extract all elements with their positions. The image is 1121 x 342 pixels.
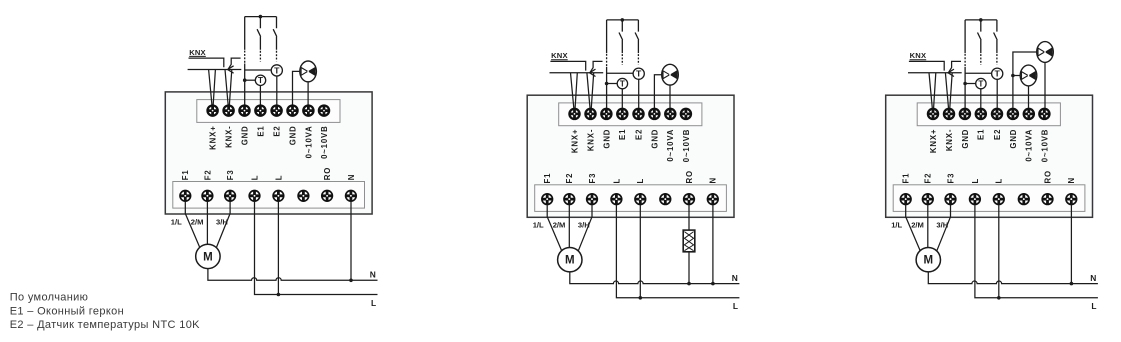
KNX bus upper wire xyxy=(189,58,224,67)
valve actuator Y3A xyxy=(1020,65,1037,86)
svg-text:1/L: 1/L xyxy=(891,221,902,230)
screw terminal E2 (top 5) xyxy=(272,106,282,116)
screw terminal KNX- (top 2) xyxy=(944,109,954,119)
svg-text:0~10VA: 0~10VA xyxy=(1025,129,1034,162)
wire terminal N down to N line xyxy=(1070,205,1072,284)
wire T2 to terminal E2 xyxy=(996,79,998,108)
screw terminal RO (bottom 7) xyxy=(684,194,695,205)
wire motor to N line (with crossover hops) xyxy=(928,272,1098,284)
junction L xyxy=(277,293,281,297)
wire valve YA to terminal 0~10VA xyxy=(1028,86,1030,108)
junction L xyxy=(997,296,1001,300)
fan motor M1 xyxy=(196,244,220,268)
switch S1.2 (E2 contact) xyxy=(273,17,277,50)
wire F2 to motor (speed 2/M) xyxy=(927,205,929,248)
wire F3 to motor (speed 3/H) xyxy=(937,205,951,252)
wire GND to valve YA xyxy=(1013,75,1021,77)
screw terminal GND (top 6) xyxy=(287,106,297,116)
svg-text:0~10VA: 0~10VA xyxy=(304,125,313,158)
KNX- drop wires to terminal 2 xyxy=(225,70,232,105)
wire valve Y1 to terminal 0~10VA xyxy=(307,82,309,105)
wire RO to heater load xyxy=(688,205,690,230)
svg-text:F1: F1 xyxy=(543,173,552,184)
svg-text:GND: GND xyxy=(602,129,611,149)
svg-text:GND: GND xyxy=(288,125,297,145)
window contact common rail xyxy=(607,19,639,21)
screw terminal F1 (bottom 1) xyxy=(542,194,553,205)
svg-text:KNX+: KNX+ xyxy=(209,125,218,149)
screw terminal L (bottom 4) xyxy=(249,191,260,202)
screw terminal GND (top 6) xyxy=(1008,109,1018,119)
wire T2 to terminal E2 xyxy=(276,76,278,105)
wire F1 to motor (speed 1/L) xyxy=(547,205,562,252)
common leg wire (to GND) xyxy=(964,20,966,53)
junction valves common xyxy=(1011,74,1015,78)
svg-text:GND: GND xyxy=(240,125,249,145)
caption: default configuration notes xyxy=(10,291,200,331)
controller module U3 (housing) xyxy=(886,95,1093,217)
svg-text:E1: E1 xyxy=(977,129,986,140)
KNX- drop wires to terminal 2 xyxy=(587,73,594,108)
wire GND to sensor T2 xyxy=(965,72,992,74)
screw terminal F3 (bottom 3) xyxy=(587,194,598,205)
screw terminal 0~10VA (top 7) xyxy=(665,109,675,119)
wire terminal L (2nd) to L line xyxy=(998,205,1000,298)
svg-text:L: L xyxy=(250,175,259,181)
screw terminal N (bottom 8) xyxy=(1066,194,1077,205)
svg-text:M: M xyxy=(924,255,934,267)
svg-text:E1: E1 xyxy=(618,129,627,140)
svg-text:RO: RO xyxy=(1043,170,1052,183)
wire F2 to motor (speed 2/M) xyxy=(568,205,570,248)
screw terminal L (bottom 5) xyxy=(273,191,284,202)
svg-text:F3: F3 xyxy=(946,173,955,184)
junction load-N xyxy=(687,282,691,286)
svg-text:KNX+: KNX+ xyxy=(929,129,938,153)
screw terminal RO (bottom 7) xyxy=(322,191,333,202)
lower terminal strip X2.2 xyxy=(535,185,727,212)
temperature sensor T1 (on E1) xyxy=(976,78,986,88)
controller module U2 (housing) xyxy=(527,95,734,217)
window contact common rail xyxy=(965,19,997,21)
svg-text:T: T xyxy=(258,76,263,85)
svg-text:KNX: KNX xyxy=(189,48,206,57)
svg-text:F3: F3 xyxy=(588,173,597,184)
KNX bus lower wire xyxy=(188,69,242,71)
fan motor M2 xyxy=(558,248,582,272)
wire F1 to motor (speed 1/L) xyxy=(185,202,200,249)
wire terminal N down to N line xyxy=(712,205,714,284)
screw terminal E2 (top 5) xyxy=(633,109,643,119)
junction on GND leg xyxy=(963,82,967,86)
svg-text:M: M xyxy=(565,255,575,267)
screw terminal F1 (bottom 1) xyxy=(900,194,911,205)
temperature sensor T2 (on E2) xyxy=(992,68,1003,79)
wire T1 to terminal E1 xyxy=(259,86,261,105)
svg-text:KNX: KNX xyxy=(910,51,927,60)
KNX twist chevron xyxy=(590,69,596,76)
junction on GND leg xyxy=(605,82,609,86)
lower terminal strip X3.2 xyxy=(893,185,1085,212)
KNX bus upper wire stub (after twist) xyxy=(228,58,241,69)
svg-text:N: N xyxy=(1090,273,1096,283)
common leg wire (to GND) xyxy=(244,17,246,50)
wire motor to N line (with crossover hops) xyxy=(570,272,740,284)
wire T1 to terminal E1 xyxy=(621,89,623,108)
screw terminal GND (top 3) xyxy=(960,109,970,119)
svg-text:N: N xyxy=(370,270,376,280)
screw terminal F2 (bottom 2) xyxy=(202,191,213,202)
svg-text:1/L: 1/L xyxy=(171,217,182,226)
valve actuator Y2 xyxy=(662,64,679,85)
wire GND to valve Y1 xyxy=(654,75,662,108)
wire F3 to motor (speed 3/H) xyxy=(578,205,592,252)
svg-text:T: T xyxy=(978,80,983,89)
svg-text:L: L xyxy=(636,178,645,184)
KNX bus lower wire xyxy=(550,72,604,74)
screw terminal F2 (bottom 2) xyxy=(923,194,934,205)
svg-text:1/L: 1/L xyxy=(533,221,544,230)
screw terminal F3 (bottom 3) xyxy=(945,194,956,205)
wire terminal L (1st) to L line xyxy=(975,205,1098,298)
wire terminal L (2nd) to L line xyxy=(639,205,641,298)
temperature sensor T2 (on E2) xyxy=(633,68,644,79)
valve actuator Y1 xyxy=(300,61,317,82)
KNX bus upper wire xyxy=(550,61,585,70)
rail junction xyxy=(621,18,625,22)
svg-text:F2: F2 xyxy=(565,173,574,184)
wire GND to sensor T2 xyxy=(607,72,634,74)
svg-text:F2: F2 xyxy=(924,173,933,184)
screw terminal N (bottom 8) xyxy=(346,191,357,202)
svg-text:N: N xyxy=(709,177,718,183)
svg-text:T: T xyxy=(636,69,642,79)
svg-text:2/M: 2/M xyxy=(553,221,566,230)
lower terminal strip X1.2 xyxy=(173,182,365,209)
rail junction xyxy=(259,15,263,19)
wire heater load to N line xyxy=(688,252,690,284)
screw terminal E2 (top 5) xyxy=(992,109,1002,119)
KNX+ drop wires to terminal 1 xyxy=(209,70,216,105)
svg-text:T: T xyxy=(995,69,1001,79)
svg-text:L: L xyxy=(733,301,738,311)
wire T2 to terminal E2 xyxy=(638,79,640,108)
screw terminal L (bottom 5) xyxy=(994,194,1005,205)
svg-text:GND: GND xyxy=(961,129,970,149)
svg-text:L: L xyxy=(971,178,980,184)
upper terminal strip X3.1 xyxy=(917,103,1060,126)
svg-text:F1: F1 xyxy=(181,169,190,180)
wire valve YB to terminal 0~10VB xyxy=(1044,62,1046,108)
temperature sensor T2 (on E2) xyxy=(271,65,282,76)
wire GND to sensor T1 xyxy=(245,79,256,81)
screw terminal E1 (top 4) xyxy=(976,109,986,119)
KNX twist chevron xyxy=(948,69,954,76)
wire terminal N down to N line xyxy=(350,202,352,281)
svg-text:GND: GND xyxy=(650,129,659,149)
screw terminal RO (bottom 7) xyxy=(1042,194,1053,205)
switch S3.1 (E1 contact) xyxy=(978,20,982,53)
svg-text:KNX: KNX xyxy=(551,51,568,60)
svg-text:L: L xyxy=(995,178,1004,184)
wire F2 to motor (speed 2/M) xyxy=(206,202,208,245)
svg-text:L: L xyxy=(1091,301,1096,311)
svg-text:GND: GND xyxy=(1009,129,1018,149)
screw terminal E1 (top 4) xyxy=(617,109,627,119)
svg-text:E2: E2 xyxy=(634,129,643,140)
junction L xyxy=(639,296,643,300)
screw terminal 0~10VB (top 8) xyxy=(1039,109,1049,119)
wire GND to sensor T2 xyxy=(245,69,272,71)
screw terminal F1 (bottom 1) xyxy=(180,191,191,202)
screw terminal 0~10VB (top 8) xyxy=(681,109,691,119)
svg-text:KNX-: KNX- xyxy=(945,129,954,151)
junction on GND leg xyxy=(243,78,247,82)
KNX bus upper wire stub (after twist) xyxy=(948,61,961,72)
svg-text:E2: E2 xyxy=(273,125,282,136)
svg-text:L: L xyxy=(612,178,621,184)
svg-text:0~10VA: 0~10VA xyxy=(666,129,675,162)
wire motor to N line (with crossover hops) xyxy=(208,269,378,281)
switch S2.1 (E1 contact) xyxy=(619,20,623,53)
junction N xyxy=(711,282,715,286)
screw terminal KNX+ (top 1) xyxy=(928,109,938,119)
svg-text:F2: F2 xyxy=(203,169,212,180)
common wire GND for valves xyxy=(1013,52,1037,108)
svg-text:RO: RO xyxy=(323,167,332,180)
fan motor M3 xyxy=(916,248,940,272)
svg-text:T: T xyxy=(620,80,625,89)
screw terminal KNX+ (top 1) xyxy=(208,106,218,116)
svg-text:N: N xyxy=(1067,177,1076,183)
temperature sensor T1 (on E1) xyxy=(617,78,627,88)
svg-text:KNX-: KNX- xyxy=(225,125,234,147)
screw terminal spare (bottom 6) xyxy=(660,194,671,205)
svg-text:L: L xyxy=(371,298,376,308)
wire GND to valve Y1 xyxy=(293,71,301,104)
common leg wire (to GND) xyxy=(606,20,608,53)
screw terminal spare (bottom 6) xyxy=(1019,194,1030,205)
wire F1 to motor (speed 1/L) xyxy=(906,205,921,252)
screw terminal E1 (top 4) xyxy=(255,106,265,116)
screw terminal 0~10VA (top 7) xyxy=(1024,109,1034,119)
rail junction xyxy=(979,18,983,22)
upper terminal strip X1.1 xyxy=(197,100,340,123)
screw terminal KNX- (top 2) xyxy=(224,106,234,116)
screw terminal spare (bottom 6) xyxy=(298,191,309,202)
wire terminal L (1st) to L line xyxy=(255,202,378,295)
valve actuator Y3B xyxy=(1037,42,1054,63)
svg-text:T: T xyxy=(274,65,280,75)
svg-text:KNX-: KNX- xyxy=(586,129,595,151)
KNX twist chevron xyxy=(228,66,234,73)
svg-text:N: N xyxy=(347,174,356,180)
svg-text:RO: RO xyxy=(685,170,694,183)
controller module U1 (housing) xyxy=(165,92,372,214)
svg-text:E1: E1 xyxy=(256,125,265,136)
svg-text:Е1 – Оконный геркон: Е1 – Оконный геркон xyxy=(10,305,124,317)
svg-text:0~10VB: 0~10VB xyxy=(682,129,691,163)
wire valve Y1 to terminal 0~10VA xyxy=(669,85,671,108)
screw terminal L (bottom 4) xyxy=(970,194,981,205)
switch S1.1 (E1 contact) xyxy=(257,17,261,50)
svg-text:KNX+: KNX+ xyxy=(570,129,579,153)
screw terminal F2 (bottom 2) xyxy=(564,194,575,205)
svg-text:Е2 – Датчик температуры NTC 10: Е2 – Датчик температуры NTC 10K xyxy=(10,319,200,331)
svg-text:L: L xyxy=(274,175,283,181)
svg-text:F3: F3 xyxy=(226,169,235,180)
svg-text:M: M xyxy=(203,251,213,263)
KNX+ drop wires to terminal 1 xyxy=(929,73,936,108)
wire GND to sensor T1 xyxy=(965,83,976,85)
svg-text:0~10VB: 0~10VB xyxy=(1040,129,1049,163)
wire terminal L (2nd) to L line xyxy=(277,202,279,295)
KNX+ drop wires to terminal 1 xyxy=(571,73,578,108)
screw terminal L (bottom 5) xyxy=(635,194,646,205)
KNX bus upper wire stub (after twist) xyxy=(590,61,603,72)
screw terminal L (bottom 4) xyxy=(611,194,622,205)
switch S3.2 (E2 contact) xyxy=(994,20,998,53)
switch S2.2 (E2 contact) xyxy=(635,20,639,53)
screw terminal KNX+ (top 1) xyxy=(569,109,579,119)
svg-text:0~10VB: 0~10VB xyxy=(320,125,329,158)
upper terminal strip X2.1 xyxy=(559,103,702,126)
wire GND to sensor T1 xyxy=(607,83,618,85)
screw terminal GND (top 6) xyxy=(649,109,659,119)
screw terminal GND (top 3) xyxy=(239,106,249,116)
temperature sensor T1 (on E1) xyxy=(255,75,265,85)
wire terminal L (1st) to L line xyxy=(616,205,739,298)
screw terminal N (bottom 8) xyxy=(708,194,719,205)
svg-text:2/M: 2/M xyxy=(911,221,924,230)
heater load R2 (on RO relay output) xyxy=(683,230,695,252)
wire T1 to terminal E1 xyxy=(980,89,982,108)
junction N xyxy=(349,279,353,283)
screw terminal KNX- (top 2) xyxy=(585,109,595,119)
screw terminal 0~10VA (top 7) xyxy=(303,106,313,116)
svg-text:E2: E2 xyxy=(993,129,1002,140)
svg-text:2/M: 2/M xyxy=(191,217,204,226)
KNX- drop wires to terminal 2 xyxy=(945,73,952,108)
KNX bus upper wire xyxy=(909,61,944,70)
window contact common rail xyxy=(245,16,277,18)
KNX bus lower wire xyxy=(908,72,962,74)
screw terminal GND (top 3) xyxy=(601,109,611,119)
junction N xyxy=(1070,282,1074,286)
svg-text:F1: F1 xyxy=(902,173,911,184)
svg-text:N: N xyxy=(732,273,738,283)
screw terminal 0~10VB (top 8) xyxy=(319,106,329,116)
screw terminal F3 (bottom 3) xyxy=(225,191,236,202)
wire F3 to motor (speed 3/H) xyxy=(216,202,230,249)
svg-text:По умолчанию: По умолчанию xyxy=(10,291,89,303)
